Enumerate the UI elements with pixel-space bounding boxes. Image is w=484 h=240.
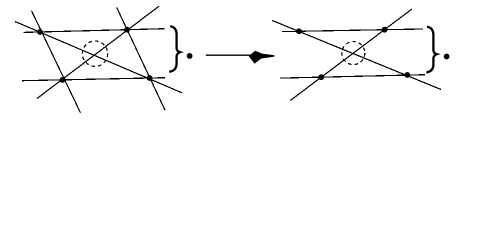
node TL (left figure top-left point) [37, 29, 43, 35]
wire L2 (left figure bottom horizontal line) [22, 78, 165, 81]
wire L1 (left figure top horizontal line) [24, 29, 165, 33]
wire L1' (right figure top horizontal line) [282, 29, 423, 32]
node TR' (right figure top-right point) [382, 27, 388, 33]
node TR (left figure top-right point) [124, 27, 130, 33]
left bullet point [187, 53, 193, 59]
node TL' (right figure top-left point) [296, 28, 302, 34]
wire L2' (right figure bottom horizontal line) [280, 75, 425, 78]
dashed circle marking crossing of A' and B' (right figure) [342, 42, 365, 65]
wire B' (right figure diagonal through top-left and bottom-right nodes) [272, 20, 441, 89]
arrow shaft [206, 54, 256, 56]
node BL' (right figure bottom-left point) [318, 74, 324, 80]
wire C (left figure steep line through left pair of nodes) [32, 11, 81, 113]
wire D (left figure steep line through right pair of nodes) [117, 8, 165, 111]
right curly brace [426, 27, 437, 73]
node BR (left figure bottom-right point) [147, 75, 153, 81]
node BR' (right figure bottom-right point) [404, 72, 410, 78]
left curly brace [169, 26, 180, 72]
arrow head [249, 51, 275, 64]
wire B (left figure diagonal through top-left and bottom-right nodes) [15, 22, 182, 93]
wire A' (right figure diagonal through bottom-left and top-right nodes) [290, 9, 412, 101]
wire A (left figure diagonal through top-right and bottom-left nodes) [37, 6, 159, 98]
right bullet point [444, 54, 450, 60]
node BL (left figure bottom-left point) [60, 77, 66, 83]
dashed circle marking crossing of A and B (left figure) [82, 41, 107, 66]
